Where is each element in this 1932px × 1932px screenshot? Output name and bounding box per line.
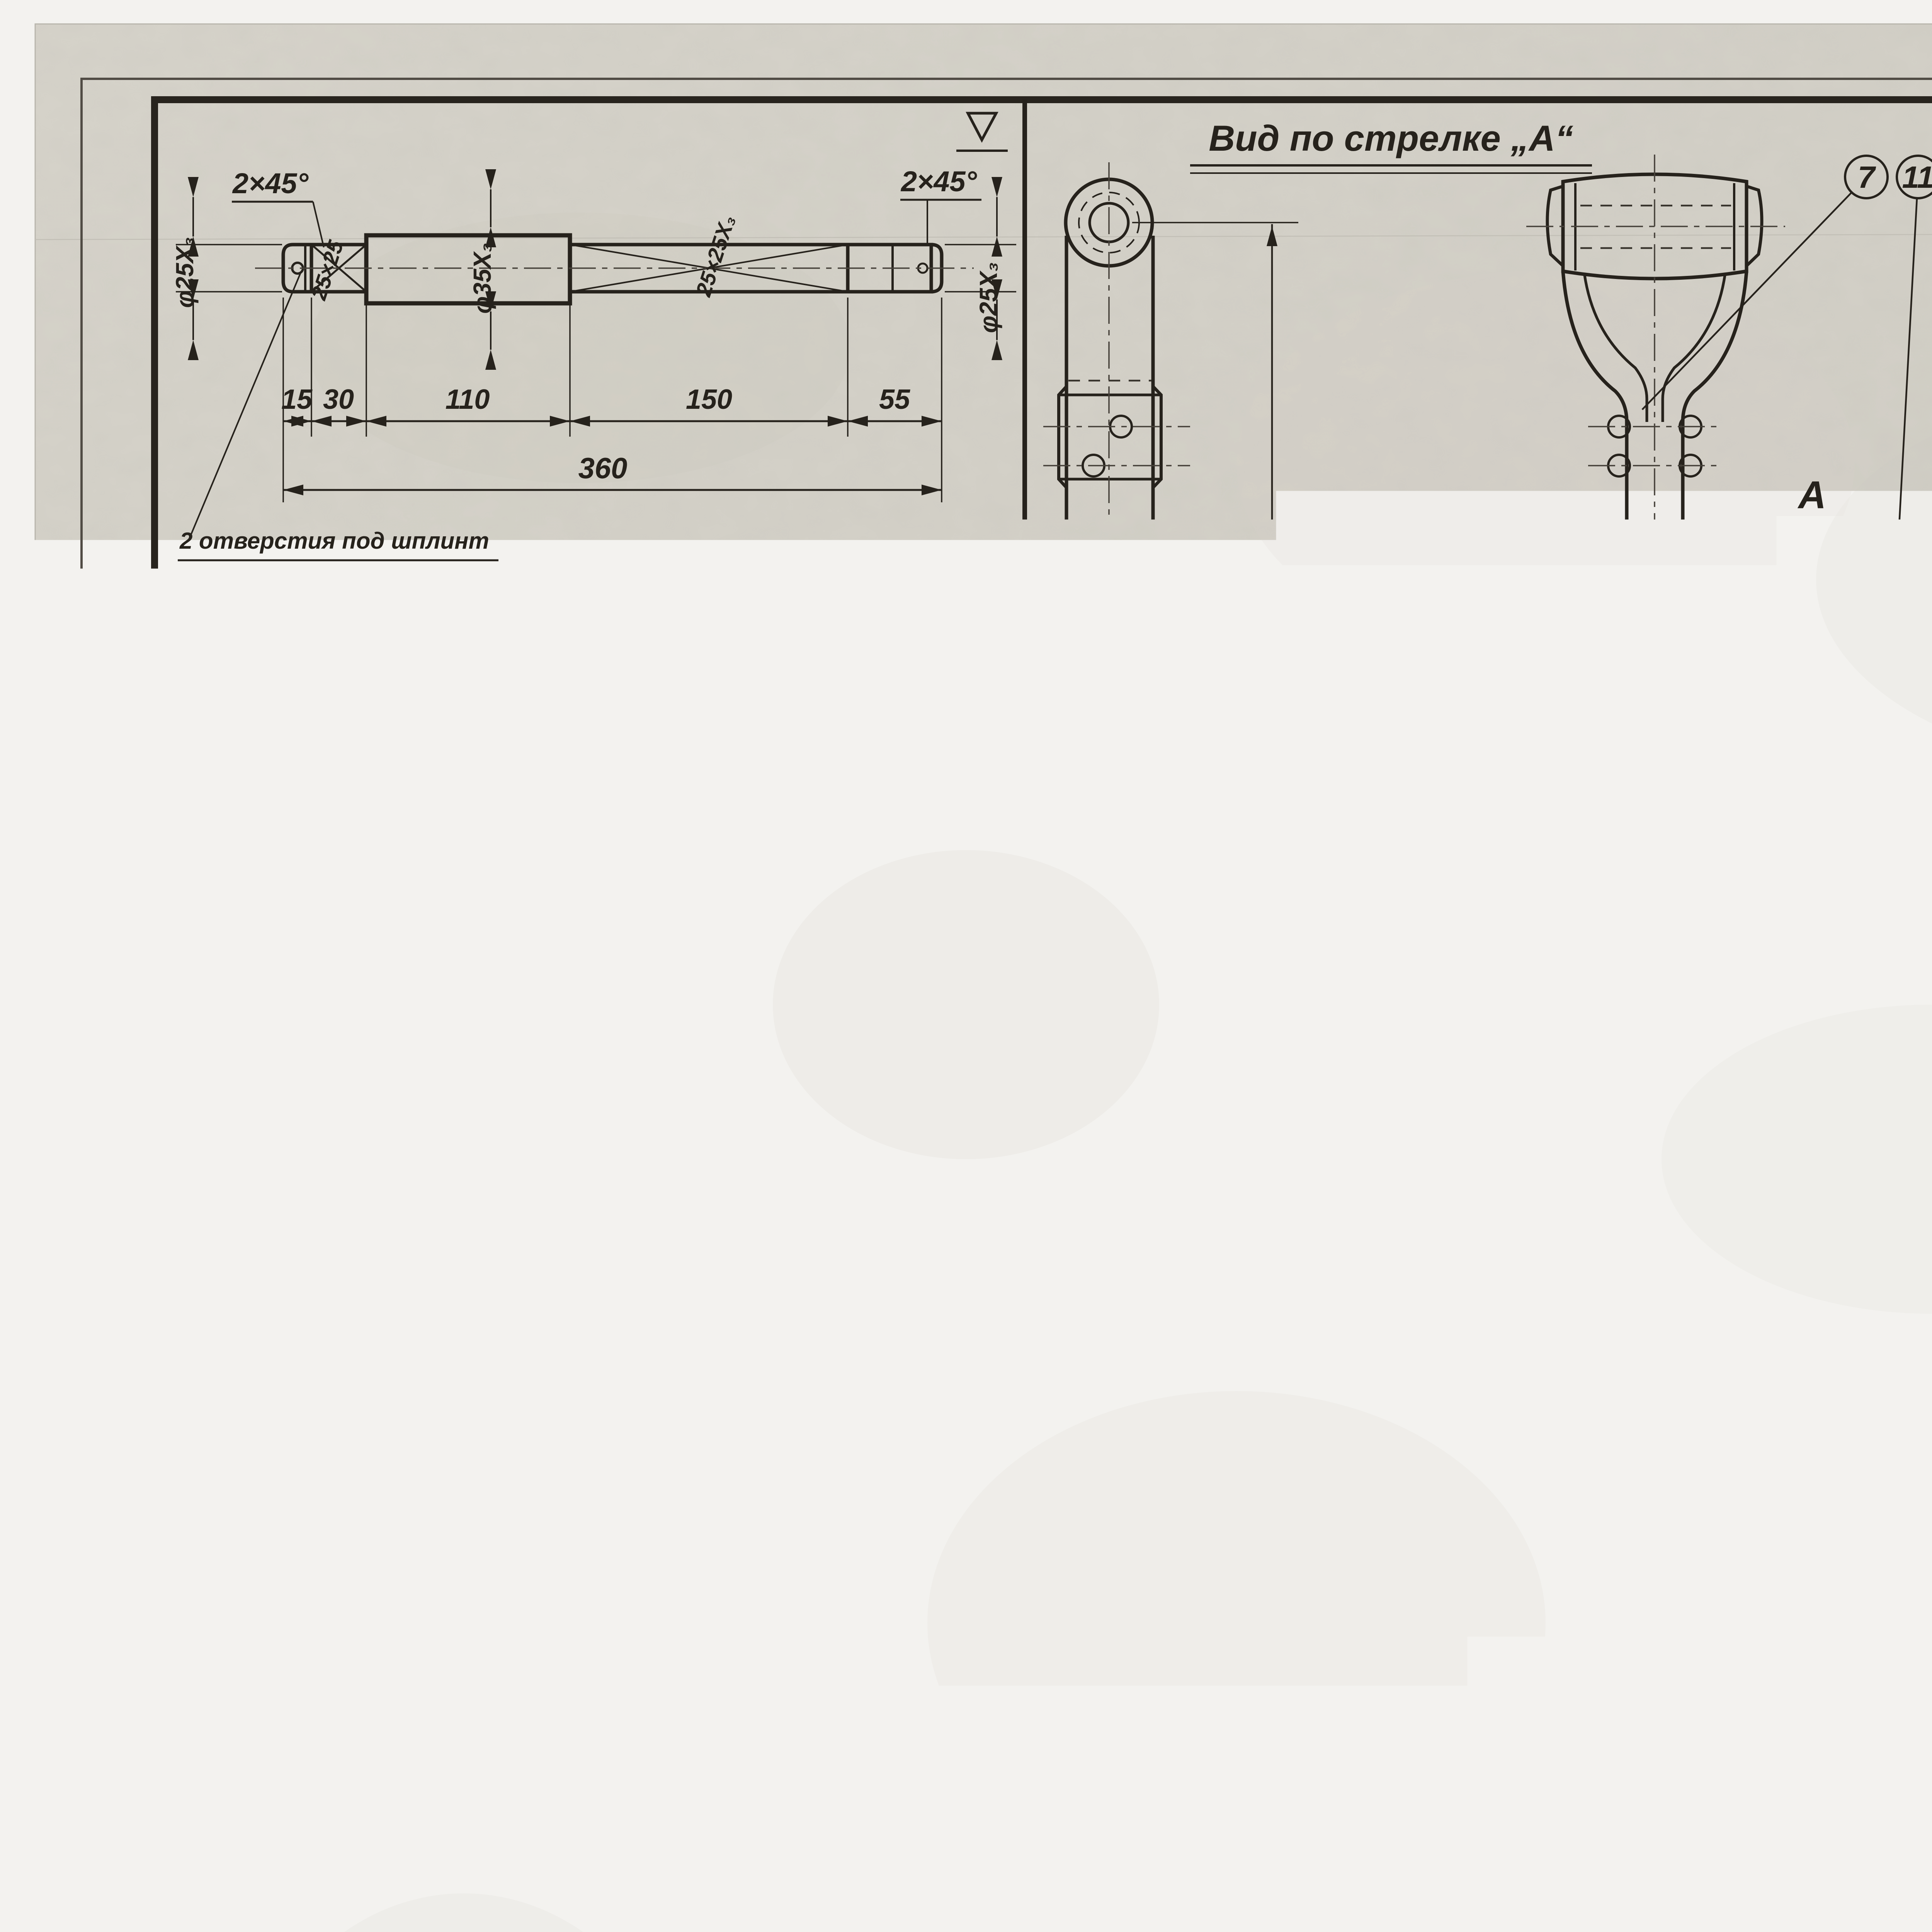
svg-text:z=9: z=9: [677, 928, 722, 958]
svg-text:30X₃: 30X₃: [310, 1150, 369, 1180]
divider valik/vilka: [155, 727, 1025, 731]
central bracket 8: [1477, 1386, 1568, 1421]
bracket bolts: [1564, 1495, 1603, 1515]
svg-text:Коп.: Коп.: [537, 1335, 571, 1353]
svg-text:1: 1: [983, 587, 995, 613]
divider vilka/rychag: [155, 1372, 1025, 1376]
svg-text:7: 7: [1858, 160, 1876, 194]
lever assembly long bar: [1043, 1284, 1145, 1386]
svg-text:≈ 325 (по месту): ≈ 325 (по месту): [1302, 1653, 1505, 1681]
svg-text:175: 175: [1828, 1603, 1874, 1634]
svg-text:115: 115: [1918, 724, 1932, 755]
svg-text:z=25: z=25: [343, 1386, 400, 1415]
svg-text:А: А: [1797, 473, 1826, 517]
svg-text:Черт.: Черт.: [529, 708, 578, 726]
svg-text:20: 20: [1860, 1147, 1889, 1175]
svg-text:550: 550: [516, 1835, 548, 1882]
svg-text:К-во: К-во: [969, 1276, 1009, 1296]
svg-text:Вид по стрелке „А“: Вид по стрелке „А“: [1209, 118, 1573, 158]
svg-text:φ5 сверлить при сборке: φ5 сверлить при сборке: [180, 577, 467, 603]
dims 175 175 350 325: [1698, 1544, 1699, 1700]
svg-text:Коп.: Коп.: [537, 690, 571, 708]
svg-text:12,13,12: 12,13,12: [782, 1408, 860, 1430]
svg-text:Включен. фрикцион. муфты: Включен. фрикцион. муфты: [668, 665, 994, 690]
svg-text:Механизм включения фрикци-: Механизм включения фрикци-: [1600, 1867, 1932, 1897]
svg-text:150: 150: [854, 952, 883, 996]
svg-text:1.: 1.: [1546, 1867, 1569, 1898]
finish mark triangle: [968, 113, 996, 140]
plan dim row: [1858, 1043, 1859, 1213]
svg-text:2×45°: 2×45°: [900, 165, 977, 197]
svg-text:13: 13: [1509, 1182, 1544, 1216]
fork Vilka front view: [564, 827, 649, 1029]
svg-text:95: 95: [769, 992, 797, 1020]
svg-text:30: 30: [769, 886, 797, 914]
svg-text:2×45°: 2×45°: [232, 167, 309, 199]
svg-text:Вес: Вес: [912, 631, 946, 651]
svg-text:φ25X₃: φ25X₃: [975, 262, 1002, 333]
svg-text:15: 15: [281, 384, 313, 415]
svg-text:z=5: z=5: [682, 1699, 723, 1726]
svg-text:963-А: 963-А: [957, 1339, 1022, 1366]
svg-text:25: 25: [467, 1455, 493, 1483]
svg-text:3: 3: [1368, 1182, 1385, 1216]
svg-text:12: 12: [320, 766, 347, 793]
svg-text:онной муфты окрасить асфа-: онной муфты окрасить асфа-: [1600, 1915, 1932, 1932]
clevis fork detail 7: [1563, 174, 1747, 279]
svg-text:~: ~: [903, 750, 928, 798]
svg-text:140: 140: [617, 1527, 644, 1567]
svg-text:5×45°: 5×45°: [378, 898, 452, 929]
finish marks group rychag cell: [912, 1397, 1030, 1442]
svg-text:М-л: М-л: [862, 631, 895, 651]
svg-text:2×45°: 2×45°: [372, 839, 447, 870]
balloon callout 13: [1505, 1178, 1548, 1220]
balloon callout 7: [1225, 1178, 1267, 1220]
foundation bolts: [1860, 590, 1908, 616]
lever bent strip side view: [667, 1446, 812, 1932]
svg-text:12: 12: [1604, 1182, 1638, 1216]
svg-text:К-во: К-во: [969, 631, 1009, 651]
dim po mestu vertical: [1271, 224, 1273, 1688]
svg-text:1: 1: [546, 583, 563, 617]
svg-text:∠-по месту: ∠-по месту: [1226, 558, 1257, 727]
svg-text:дет.: дет.: [532, 631, 577, 652]
svg-text:z=20: z=20: [687, 1873, 740, 1900]
svg-text:360: 360: [578, 452, 628, 485]
svg-text:60: 60: [1929, 1147, 1932, 1175]
svg-text:150: 150: [686, 384, 732, 415]
svg-text:14,18,14: 14,18,14: [538, 772, 622, 797]
svg-text:7: 7: [1238, 1182, 1256, 1216]
svg-text:М.Р.Т.: М.Р.Т.: [544, 660, 624, 692]
svg-text:55: 55: [879, 384, 910, 415]
fork square-hole boss: [557, 1007, 653, 1104]
svg-text:Наименование: Наименование: [622, 627, 809, 656]
svg-text:Включен. фрикцион. муфты: Включен. фрикцион. муфты: [668, 1310, 994, 1335]
left column divider: [1022, 100, 1027, 1932]
plan view plate: [1766, 889, 1932, 1026]
tie rod front view: [1066, 179, 1152, 266]
svg-text:250: 250: [903, 1709, 932, 1754]
svg-text:11: 11: [1902, 160, 1932, 194]
svg-text:2 отверстия под шплинт: 2 отверстия под шплинт: [179, 528, 489, 554]
svg-text:Примечание:: Примечание:: [1570, 1811, 1774, 1846]
svg-text:Ст.3Н: Ст.3Н: [850, 590, 907, 611]
svg-text:125: 125: [654, 1527, 681, 1568]
balloon callout 3: [1355, 1178, 1398, 1220]
lever top hole: [234, 1466, 275, 1507]
svg-text:175: 175: [465, 1628, 493, 1671]
svg-text:963-А: 963-А: [957, 694, 1022, 721]
svg-text:2: 2: [982, 1232, 995, 1258]
finish marks group valik cell: [903, 750, 1080, 798]
svg-text:Вес: Вес: [912, 1276, 946, 1296]
svg-text:25: 25: [769, 1080, 797, 1109]
svg-text:Вилка: Вилка: [596, 1228, 687, 1262]
fork Vilka part 2 side view: [310, 825, 368, 1099]
title table Valik: [530, 580, 1025, 729]
svg-text:φ21: φ21: [417, 1842, 464, 1871]
svg-text:46: 46: [559, 747, 585, 773]
title table Vilka: [530, 1225, 1025, 1374]
svg-text:2: 2: [545, 1228, 563, 1262]
lever Rychag part 3 flat view: [201, 1447, 406, 1932]
svg-text:2×45°: 2×45°: [685, 1449, 751, 1477]
svg-text:2×45°: 2×45°: [177, 1020, 252, 1051]
balloon callout 12: [1600, 1178, 1642, 1220]
balloon callout 11: [1897, 156, 1932, 198]
svg-text:z=25: z=25: [428, 1719, 485, 1748]
svg-text:Черт.: Черт.: [529, 1353, 578, 1371]
svg-text:Ст.3Н: Ст.3Н: [850, 1235, 907, 1255]
shaft axis centerline: [1917, 552, 1932, 553]
svg-text:Наименование: Наименование: [622, 1272, 809, 1301]
shaft Valik part 1: [283, 245, 311, 292]
ghost dashed outline: [1467, 832, 1641, 974]
svg-text:1,35: 1,35: [909, 590, 949, 612]
svg-text:ВЕРФЬ: ВЕРФЬ: [841, 1355, 900, 1373]
angled lever arm horizontal: [1754, 1285, 1932, 1386]
svg-text:φ21: φ21: [367, 1556, 413, 1585]
svg-text:М.Р.Т.: М.Р.Т.: [544, 1304, 624, 1337]
svg-text:60: 60: [300, 1891, 328, 1920]
balloon callout 7: [1845, 156, 1888, 198]
svg-text:30: 30: [323, 384, 354, 415]
svg-text:К.Б.: К.Б.: [653, 712, 676, 726]
svg-text:К.Б.: К.Б.: [653, 1357, 676, 1371]
svg-text:0,75: 0,75: [909, 1235, 949, 1257]
svg-text:1:2,5: 1:2,5: [735, 1350, 782, 1373]
base plate opora: [1846, 614, 1932, 618]
svg-text:Валик: Валик: [596, 583, 689, 617]
svg-text:37: 37: [808, 1377, 835, 1403]
svg-text:1:2,5: 1:2,5: [735, 706, 782, 728]
svg-text:~: ~: [912, 1397, 935, 1442]
svg-text:ВЕРФЬ: ВЕРФЬ: [841, 710, 900, 728]
svg-text:дет.: дет.: [532, 1276, 577, 1297]
balloon callout 8: [1848, 1178, 1891, 1220]
svg-text:М-л: М-л: [862, 1276, 895, 1296]
base centerline and breaks: [1490, 1522, 1932, 1523]
svg-text:совместно с дет. №№ 3-5-11.: совместно с дет. №№ 3-5-11.: [180, 630, 483, 652]
svg-text:110: 110: [446, 384, 490, 415]
svg-text:8: 8: [1861, 1182, 1878, 1216]
lever middle boss hole: [350, 1793, 379, 1823]
svg-text:z=25: z=25: [370, 1661, 427, 1689]
